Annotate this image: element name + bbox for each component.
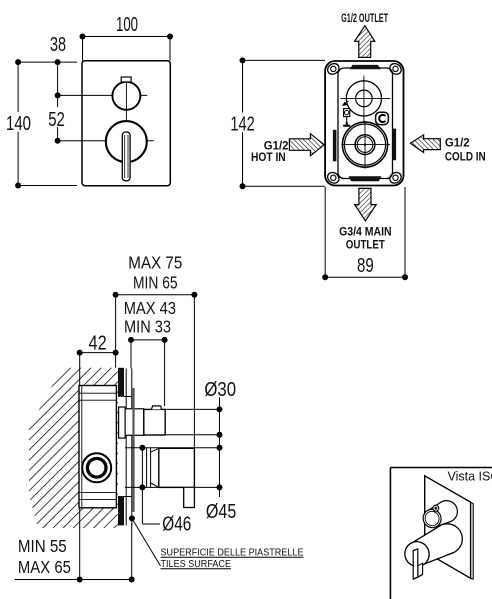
svg-text:Ø46: Ø46 <box>162 514 191 536</box>
top knob circle <box>112 82 140 110</box>
escutcheon gray line <box>132 388 134 512</box>
lever handle <box>184 487 195 507</box>
diameter dim dots <box>129 406 223 521</box>
dim dots view1 <box>15 34 173 189</box>
tiles surface lines <box>125 369 127 526</box>
bottom lever circle <box>106 121 147 162</box>
knob tab <box>121 77 131 82</box>
iso temp ring <box>433 505 439 511</box>
vertical centerline <box>125 77 127 121</box>
MAX43/MIN33 dim <box>131 339 165 341</box>
svg-text:G1/2 OUTLET: G1/2 OUTLET <box>341 11 388 25</box>
lever <box>122 132 130 181</box>
down arrow main outlet <box>355 188 377 220</box>
bottom dim MIN55/MAX65 <box>15 579 132 581</box>
box inner <box>338 68 393 179</box>
leader to tiles surface text <box>132 518 161 566</box>
left dark strip <box>333 130 337 162</box>
svg-text:Ø30: Ø30 <box>204 379 236 401</box>
iso knob cylinder <box>420 501 457 531</box>
lever cylinder <box>159 448 195 487</box>
C badge <box>376 112 389 124</box>
dim dots view3 <box>77 292 198 583</box>
centerline bottom circle <box>58 140 154 142</box>
icon valve <box>344 109 350 117</box>
corner lug TL <box>326 61 404 185</box>
text 142 <box>229 113 256 133</box>
dimension lines <box>15 295 195 580</box>
dia30 extension lines <box>125 397 220 524</box>
dim 140 line <box>17 62 19 185</box>
svg-text:MIN 65: MIN 65 <box>133 272 178 292</box>
text 140 <box>4 112 33 132</box>
svg-text:89: 89 <box>357 255 374 277</box>
svg-text:38: 38 <box>50 34 66 56</box>
corner lug holes <box>331 66 399 180</box>
svg-text:MIN 33: MIN 33 <box>124 316 171 336</box>
iso plate <box>425 476 471 579</box>
body cap circles <box>82 453 111 482</box>
bottom dark tab <box>349 176 382 181</box>
right dark strip <box>393 129 397 161</box>
svg-text:OUTLET: OUTLET <box>346 238 386 252</box>
svg-text:52: 52 <box>48 109 65 131</box>
svg-text:G3/4 MAIN: G3/4 MAIN <box>339 224 392 238</box>
top cartridge circles <box>346 81 381 116</box>
svg-text:140: 140 <box>6 113 31 135</box>
dim 142 <box>243 60 406 277</box>
svg-text:MAX 43: MAX 43 <box>124 298 176 318</box>
svg-text:Ø45: Ø45 <box>206 501 236 523</box>
dim dots 142/89 <box>240 57 409 280</box>
svg-text:G1/2: G1/2 <box>445 136 470 150</box>
svg-text:Vista ISO: Vista ISO <box>448 469 492 483</box>
iso lever blade <box>418 563 423 577</box>
svg-text:MIN 55: MIN 55 <box>18 536 67 556</box>
bottom cartridge circles <box>342 122 387 167</box>
svg-text:MAX 65: MAX 65 <box>18 557 71 577</box>
lever flange lines <box>146 448 148 488</box>
left-pointing arrow cold in <box>410 135 440 153</box>
front plate <box>82 61 170 186</box>
right-pointing arrow hot in <box>289 134 324 156</box>
knob top tab <box>151 406 161 410</box>
tile block top <box>118 368 124 397</box>
MAX75/MIN65 dim <box>116 294 195 296</box>
svg-text:100: 100 <box>116 14 138 36</box>
iso main cylinder <box>401 524 463 571</box>
dim 100 line <box>83 36 171 38</box>
text 52 <box>46 107 67 127</box>
wall hatch <box>29 368 118 528</box>
svg-text:HOT IN: HOT IN <box>251 150 286 164</box>
up arrow G1/2 outlet <box>355 26 375 58</box>
svg-text:142: 142 <box>230 113 254 135</box>
icon base <box>343 122 350 126</box>
icon small arrow <box>343 101 348 105</box>
valve body <box>79 386 116 508</box>
42 dim <box>80 352 116 354</box>
centerline top circle <box>58 94 148 96</box>
svg-text:42: 42 <box>89 333 107 355</box>
svg-text:MAX 75: MAX 75 <box>128 252 182 272</box>
svg-text:COLD IN: COLD IN <box>445 149 486 163</box>
centerline top circle (inside plate) <box>82 94 147 96</box>
knob flange <box>119 407 126 438</box>
top cartridge crosshair <box>340 76 390 123</box>
knob section 2 <box>144 409 165 435</box>
bottom cartridge crosshair <box>342 121 391 169</box>
knob section 1 <box>125 409 144 436</box>
tile block bottom <box>118 496 124 525</box>
dim 38/52 line <box>57 62 59 141</box>
box outer <box>325 61 403 186</box>
top dark tab <box>350 65 381 69</box>
